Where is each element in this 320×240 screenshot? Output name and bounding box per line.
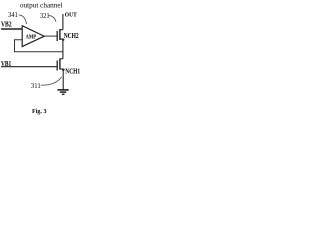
svg-text:311: 311 [31,82,41,90]
transistor NCH2 gate plate [56,31,58,41]
junction dot at NCH1 source [62,69,64,71]
svg-text:NCH2: NCH2 [64,32,79,40]
junction dot at NCH2 source [62,39,64,41]
wire: NCH1 source down to ground [62,70,64,90]
wire: VB2 to op-amp non-inverting input [1,28,22,30]
leader arc from 341 to op-amp [19,15,27,24]
wire: NCH2 source stub [60,38,63,40]
wire: NCH1 source stub [60,68,63,70]
svg-text:AMP: AMP [26,33,37,40]
ground symbol [58,90,69,94]
svg-text:VB2: VB2 [1,20,12,29]
wire: NCH2 drain stub [60,29,63,31]
wire: NCH2 source down to NCH1 drain [62,40,64,59]
wire: op-amp output to NCH2 gate [44,35,57,37]
svg-text:NCH1: NCH1 [65,68,80,76]
wire: VB1 to NCH1 gate [1,66,57,68]
op-amp AMP [22,26,44,47]
wire: feedback to inverting input [15,40,63,52]
svg-text:Fig. 3: Fig. 3 [32,108,47,115]
svg-text:341: 341 [8,11,18,19]
transistor NCH1 channel plate [59,58,61,69]
transistor NCH1 gate plate [56,61,58,71]
wire: NCH1 drain stub [60,58,63,60]
leader arc from 311 to ground wire [41,77,62,85]
wire: OUT terminal vertical [62,14,64,30]
leader arc from 321 to OUT wire [49,16,56,22]
svg-text:OUT: OUT [65,12,77,19]
transistor NCH2 channel plate [59,29,61,40]
svg-text:output channel: output channel [20,1,63,9]
